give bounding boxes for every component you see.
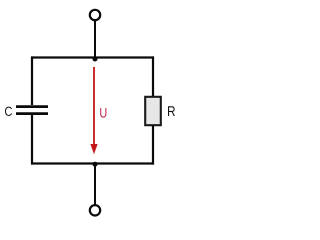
label U bbox=[100, 108, 106, 118]
node bottom junction bbox=[93, 162, 98, 167]
label C bbox=[5, 107, 12, 116]
wire top lead bbox=[94, 20, 96, 57]
label R bbox=[168, 106, 175, 116]
voltage arrow U bbox=[90, 67, 97, 154]
capacitor C1 plates bbox=[16, 107, 48, 114]
wire left upper bbox=[31, 56, 33, 105]
wire left lower bbox=[31, 115, 33, 165]
wire bottom lead bbox=[94, 164, 96, 206]
terminal top bbox=[90, 10, 100, 20]
wire top horizontal bbox=[31, 56, 154, 58]
wire right upper bbox=[152, 56, 154, 97]
node top junction bbox=[93, 57, 98, 62]
wire bottom horizontal bbox=[31, 162, 154, 164]
terminal bottom bbox=[90, 205, 100, 215]
resistor R1 bbox=[145, 97, 161, 125]
wire right lower bbox=[152, 125, 154, 164]
